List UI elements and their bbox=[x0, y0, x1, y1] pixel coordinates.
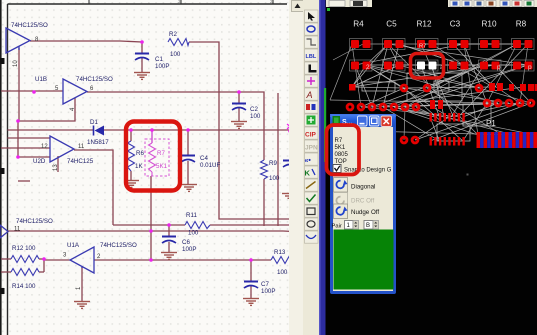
selected component R7 pads white bbox=[416, 60, 439, 71]
node marker left edge C bbox=[0, 288, 5, 294]
wire C4 bbox=[187, 130, 189, 155]
ground under C6 bbox=[161, 253, 177, 260]
wire U1A input bbox=[44, 259, 70, 261]
wire y231 tail bbox=[283, 230, 293, 233]
svg-text:C4: C4 bbox=[200, 155, 208, 162]
svg-text:CIP: CIP bbox=[305, 132, 317, 139]
wire U2D enable bbox=[57, 156, 59, 172]
wire C1 bbox=[141, 42, 143, 53]
svg-text:P1: P1 bbox=[486, 119, 496, 128]
buffer U1B 74HC125 bbox=[63, 79, 87, 104]
toolbar icon junction bbox=[305, 23, 319, 35]
toolbar icon wire bbox=[305, 36, 319, 48]
wire C7 ground stub bbox=[250, 286, 252, 298]
resistor R14 bbox=[11, 269, 39, 276]
highlight rect pcb bbox=[411, 54, 444, 79]
wire R9 bottom down bbox=[263, 179, 265, 226]
ground under C4 bbox=[181, 185, 197, 192]
dialog bbox=[327, 114, 397, 294]
svg-text:R12 100: R12 100 bbox=[12, 245, 36, 252]
svg-text:Nudge Off: Nudge Off bbox=[351, 209, 379, 216]
wire R7 top bbox=[151, 130, 153, 143]
smd bar row5 bbox=[430, 113, 432, 122]
node X marker bbox=[287, 124, 293, 129]
wire R6 top bbox=[130, 130, 132, 141]
svg-text:11: 11 bbox=[14, 227, 21, 233]
svg-text:100: 100 bbox=[269, 175, 280, 182]
svg-text:U2D: U2D bbox=[33, 158, 46, 165]
wire net R11 y225 bbox=[113, 224, 185, 226]
resistor R6 bbox=[128, 141, 135, 171]
svg-text:A: A bbox=[306, 90, 313, 100]
toolbar icon arc bbox=[305, 231, 319, 243]
wire R2 right to corner down bbox=[189, 42, 293, 219]
toolbar strip bbox=[289, 0, 326, 335]
wire net U1B out y92 bbox=[87, 92, 264, 160]
ground under U1A enable bbox=[74, 302, 90, 309]
smd resistor pads row1 bbox=[350, 39, 373, 50]
resistor R2 bbox=[168, 39, 189, 46]
svg-text:R14 100: R14 100 bbox=[12, 283, 36, 290]
svg-text:0.01UF: 0.01UF bbox=[200, 162, 221, 169]
checkbox snap bbox=[333, 165, 341, 173]
button drc off icon grayed bbox=[334, 193, 348, 208]
schematic background bbox=[0, 0, 298, 335]
wire U2D out corner down bbox=[74, 150, 113, 225]
svg-text:5K1: 5K1 bbox=[156, 163, 168, 170]
wire U2D input y138 bbox=[8, 137, 51, 139]
svg-text:1K: 1K bbox=[135, 163, 143, 170]
scrollbar up button bbox=[292, 1, 304, 12]
svg-text:0805: 0805 bbox=[335, 152, 349, 158]
wire C2 bbox=[238, 92, 240, 103]
svg-text:R9: R9 bbox=[269, 160, 277, 167]
pcb top toolbar fragment left bbox=[326, 0, 372, 7]
svg-text:100: 100 bbox=[277, 269, 288, 276]
wire stub y181 bbox=[18, 180, 30, 182]
svg-text:100: 100 bbox=[170, 51, 181, 58]
wire C7 bbox=[250, 260, 252, 281]
wire R12 left stub bbox=[1, 258, 11, 260]
highlight rect dialog bbox=[327, 125, 360, 175]
wire C3 bbox=[289, 130, 291, 160]
wire U1A enable bbox=[81, 267, 83, 301]
toolbar icon probe bbox=[305, 166, 319, 178]
silkscreen outlines bbox=[362, 73, 491, 141]
highlight rect schematic bbox=[126, 122, 180, 191]
svg-text:U1B: U1B bbox=[35, 76, 47, 83]
svg-text:C1: C1 bbox=[155, 56, 163, 63]
wire R12 R14 joiner bbox=[43, 259, 45, 272]
capacitor C7 bbox=[244, 282, 258, 289]
wire y157 from x18 bbox=[18, 156, 50, 158]
capacitor C2 bbox=[232, 104, 246, 111]
svg-text:12: 12 bbox=[41, 144, 48, 150]
svg-text:74HC125/SO: 74HC125/SO bbox=[16, 218, 53, 225]
via row4 right bbox=[484, 100, 490, 106]
svg-text:R7: R7 bbox=[157, 150, 165, 157]
wire U2D input y148 bbox=[1, 147, 50, 149]
svg-text:C5: C5 bbox=[386, 20, 397, 29]
svg-text:R10: R10 bbox=[481, 20, 496, 29]
buffer U2D 74HC125 bbox=[50, 136, 74, 162]
pcb background bbox=[326, 0, 537, 335]
toolbar icon clip bbox=[305, 127, 319, 139]
dialog close button bbox=[381, 116, 392, 127]
pcb area bbox=[324, 0, 537, 335]
svg-text:R7: R7 bbox=[335, 138, 343, 144]
buffer U2C left edge bbox=[0, 225, 8, 238]
smd resistor pads row2 bbox=[350, 60, 373, 71]
toolbar icon plus bbox=[305, 75, 319, 87]
svg-text:p: p bbox=[497, 64, 501, 71]
toolbar icon circle bbox=[305, 218, 319, 230]
toolbar icon package bbox=[305, 101, 319, 113]
through-hole pads row3 bbox=[349, 84, 356, 91]
resistor R12 bbox=[11, 256, 39, 263]
wire R13 tail bbox=[293, 259, 295, 261]
dialog window frame bbox=[330, 114, 396, 294]
wire net diode y130 bbox=[8, 129, 94, 131]
toolbar icon label bbox=[305, 49, 319, 61]
svg-text:C2: C2 bbox=[250, 106, 258, 113]
svg-text:13: 13 bbox=[53, 164, 59, 171]
ground under R6 bbox=[124, 181, 139, 188]
toolbar icon bus bbox=[305, 62, 319, 74]
junction node dots bbox=[16, 40, 292, 262]
wire net pin11 y231 bbox=[8, 230, 283, 232]
scrollbar track bbox=[289, 0, 303, 335]
svg-text:U1A: U1A bbox=[67, 242, 80, 249]
svg-text:100: 100 bbox=[250, 113, 261, 120]
svg-text:74HC125/SO: 74HC125/SO bbox=[11, 22, 48, 29]
svg-text:C7: C7 bbox=[261, 281, 269, 288]
dialog maximize button bbox=[370, 116, 380, 126]
svg-text:Pair: Pair bbox=[332, 224, 342, 230]
toolbar icon box bbox=[305, 205, 319, 217]
green origin dot bbox=[327, 8, 330, 11]
wire net U1A out y260 bbox=[94, 259, 271, 261]
wire C6 bbox=[168, 225, 170, 236]
resistor R9 bbox=[261, 160, 268, 179]
wire vertical x278 bbox=[277, 93, 279, 226]
resistor R11 bbox=[185, 222, 210, 229]
ground under C1 bbox=[134, 73, 150, 80]
ground under C7 bbox=[243, 299, 259, 306]
wire C4 ground stub bbox=[187, 161, 189, 184]
sheet border frame bbox=[0, 0, 2, 335]
svg-text:74HC125: 74HC125 bbox=[67, 158, 94, 165]
toolbar icon marker bbox=[305, 153, 319, 165]
diode D1 1N5817 bbox=[94, 126, 105, 136]
toolbar icon check bbox=[305, 192, 319, 204]
dialog title bar bbox=[331, 115, 395, 128]
svg-text:D1: D1 bbox=[90, 119, 98, 126]
resistor R13 bbox=[271, 257, 293, 264]
toolbar icon selection bbox=[305, 10, 319, 22]
wire R14 right stub bbox=[39, 271, 44, 273]
svg-text:74HC125/SO: 74HC125/SO bbox=[76, 76, 113, 83]
via row4 left bbox=[347, 104, 353, 110]
wire U1B enable to x18 bbox=[18, 98, 75, 121]
svg-text:100P: 100P bbox=[155, 63, 169, 70]
svg-text:R7: R7 bbox=[419, 44, 426, 50]
svg-text:B: B bbox=[366, 223, 370, 229]
wire diode to C3 bbox=[104, 129, 290, 131]
svg-text:R6: R6 bbox=[136, 150, 144, 157]
wire R6 bottom to ground bbox=[130, 171, 132, 180]
svg-text:100P: 100P bbox=[182, 246, 196, 253]
svg-text:R8: R8 bbox=[516, 20, 527, 29]
svg-text:2: 2 bbox=[366, 64, 370, 71]
ares window border strip bbox=[319, 0, 326, 335]
node marker left edge A bbox=[0, 58, 5, 64]
svg-text:R12: R12 bbox=[416, 20, 431, 29]
svg-text:5K1: 5K1 bbox=[335, 145, 346, 151]
wire R14 left stub bbox=[1, 271, 11, 273]
pads near connector bbox=[430, 100, 435, 109]
wire buffer1 enable bbox=[18, 48, 20, 121]
dialog minimize button bbox=[358, 116, 368, 126]
svg-text:1N5817: 1N5817 bbox=[87, 139, 109, 146]
svg-text:JPN: JPN bbox=[305, 145, 318, 152]
button diagonal icon bbox=[334, 178, 348, 193]
pcb component labels bbox=[353, 20, 526, 29]
svg-text:100P: 100P bbox=[261, 288, 275, 295]
svg-text:11: 11 bbox=[78, 144, 85, 150]
dialog title icon bbox=[333, 116, 341, 125]
toolbar icon gray bbox=[305, 140, 319, 152]
wire C1 ground stub bbox=[141, 58, 143, 72]
toolbar icon line bbox=[305, 179, 319, 191]
green layer preview bbox=[334, 230, 394, 290]
svg-text:LBL: LBL bbox=[306, 54, 317, 60]
capacitor C6 bbox=[162, 237, 176, 244]
ratsnest lines bbox=[352, 44, 531, 141]
svg-text:K: K bbox=[305, 169, 311, 178]
stray dot bbox=[467, 174, 469, 176]
connector P1 striped pads bbox=[477, 132, 481, 148]
toolbar panel bbox=[303, 0, 319, 335]
node marker left edge B bbox=[0, 168, 5, 174]
wire C3 ground stub bbox=[289, 166, 291, 193]
resistor R7 selected bbox=[145, 139, 169, 176]
capacitor C3 bbox=[283, 161, 296, 168]
board edge green line bbox=[324, 88, 326, 162]
svg-text:C3: C3 bbox=[450, 20, 461, 29]
svg-text:R2: R2 bbox=[169, 31, 177, 38]
wire R12 right stub bbox=[39, 258, 44, 260]
wire R7 bottom down x151 bbox=[150, 176, 152, 260]
svg-text:10: 10 bbox=[13, 60, 19, 67]
svg-text:p: p bbox=[528, 64, 532, 71]
svg-text:R13: R13 bbox=[274, 249, 286, 256]
buffer U1C top-left 74HC125 bbox=[6, 28, 30, 53]
svg-text:«•: «• bbox=[305, 158, 312, 165]
svg-text:100: 100 bbox=[188, 230, 199, 237]
wire net U1B input y91 bbox=[1, 90, 63, 92]
svg-text:Diagonal: Diagonal bbox=[351, 184, 375, 191]
capacitor C1 bbox=[135, 54, 149, 61]
capacitor C4 bbox=[181, 156, 195, 163]
dialog client area bbox=[333, 127, 393, 291]
svg-text:R11: R11 bbox=[186, 212, 197, 219]
smd bar row6 bbox=[430, 137, 432, 146]
wire x18 down bbox=[17, 121, 19, 157]
ground under C3 bbox=[282, 194, 298, 201]
wire C2 ground stub bbox=[238, 108, 240, 121]
wire R11 right bbox=[210, 224, 293, 226]
ground under C2 bbox=[231, 122, 247, 129]
svg-text:74HC125/SO: 74HC125/SO bbox=[100, 242, 137, 249]
toolbar icon add component bbox=[305, 114, 319, 126]
buffer U1A mirrored 74HC125 bbox=[70, 247, 94, 273]
wire C6 ground stub bbox=[168, 242, 170, 252]
svg-text:R4: R4 bbox=[353, 20, 364, 29]
pcb top toolbar fragment right bbox=[448, 0, 537, 7]
toolbar icon text bbox=[305, 88, 319, 100]
button nudge off icon bbox=[334, 204, 348, 219]
via pair row6 bbox=[401, 137, 407, 143]
wire net OUT1 y42 bbox=[30, 41, 142, 42]
svg-text:DRC Off: DRC Off bbox=[351, 198, 375, 205]
svg-text:C6: C6 bbox=[182, 239, 190, 246]
